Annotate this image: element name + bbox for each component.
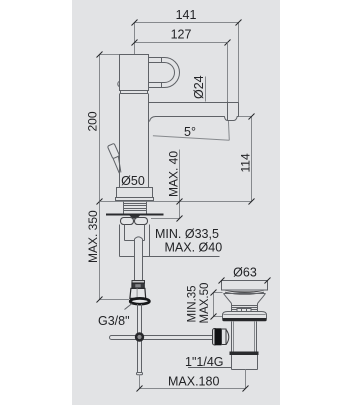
plug under-dome: [224, 290, 265, 294]
faucet head: [120, 55, 149, 91]
svg-text:MAX. Ø40: MAX. Ø40: [165, 241, 223, 255]
rod clamp on drain: [213, 328, 229, 345]
faucet body: [120, 94, 149, 188]
drain tailpipe: [232, 355, 258, 370]
svg-text:127: 127: [171, 28, 192, 42]
hose ferrule: [132, 281, 145, 284]
svg-text:G3/8": G3/8": [98, 314, 130, 328]
dark wedge under deck: [130, 216, 141, 219]
shank lower walls: [120, 225, 150, 257]
head bottom ring: [121, 91, 148, 94]
mounting nut lobes: [121, 218, 148, 225]
ball joint: [135, 332, 144, 341]
head left bump: [118, 82, 120, 87]
dimension MAX. 40: [151, 150, 183, 222]
pop-up rod vertical: [137, 304, 143, 375]
label G3/8" with leader: [98, 304, 132, 329]
base collar lip: [116, 198, 154, 201]
handle loop tubes: [149, 57, 180, 88]
svg-text:Ø63: Ø63: [233, 265, 257, 279]
svg-text:1"1/4G: 1"1/4G: [185, 355, 224, 369]
deck thick line: [106, 214, 164, 216]
svg-text:MIN.35: MIN.35: [187, 285, 199, 322]
leader line for hole diameter labels: [143, 256, 220, 258]
left dimension chain 200 / MAX 350: [97, 52, 130, 303]
base collar: [117, 188, 153, 198]
dimension 127: [132, 28, 231, 46]
dimension 114: [239, 114, 255, 205]
horizontal linkage rod: [110, 336, 213, 340]
drain plug cap (O63 dim = top edge): [219, 278, 271, 291]
svg-text:141: 141: [176, 8, 197, 22]
svg-text:Ø50: Ø50: [121, 174, 145, 188]
drain neck with threads: [232, 304, 258, 312]
deck extension line: [100, 201, 252, 203]
basin flange: [222, 312, 266, 322]
svg-text:MAX.50: MAX.50: [199, 283, 211, 324]
svg-text:MAX. 350: MAX. 350: [86, 210, 100, 263]
svg-text:114: 114: [239, 153, 253, 172]
dimension 141: [132, 8, 242, 103]
faucet centerline extension: [134, 51, 136, 55]
drain funnel: [224, 294, 266, 304]
dimension MIN.35/MAX.50: [211, 290, 223, 320]
spout: [149, 103, 239, 122]
side lever: [107, 143, 121, 173]
tab on flange: [237, 309, 251, 312]
dimension MAX.180: [137, 370, 249, 392]
aerator joint line: [227, 102, 229, 121]
svg-text:MIN. Ø33,5: MIN. Ø33,5: [155, 227, 219, 241]
svg-text:Ø24: Ø24: [192, 75, 206, 99]
threaded shank upper: [124, 202, 147, 214]
angle 5 degrees: [153, 121, 229, 141]
label O24 with leader: [192, 75, 206, 101]
svg-text:MAX.180: MAX.180: [168, 374, 219, 388]
label 1"1/4G with leader: [185, 355, 231, 369]
gray drawing panel: [72, 0, 280, 405]
supply hose: [135, 237, 143, 281]
drain dark band: [230, 352, 259, 356]
extension line 127/aerator: [227, 43, 229, 102]
G3/8 nut: [130, 283, 150, 304]
svg-text:5°: 5°: [184, 125, 196, 139]
svg-text:200: 200: [86, 111, 100, 131]
drain body: [232, 322, 257, 352]
svg-text:MAX. 40: MAX. 40: [167, 151, 181, 197]
